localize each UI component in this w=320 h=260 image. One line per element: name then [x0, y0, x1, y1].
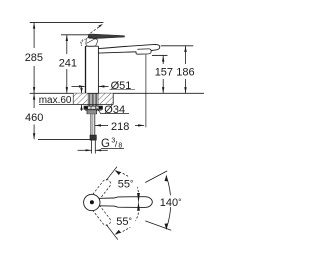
supply tube end	[91, 140, 93, 153]
svg-text:285: 285	[25, 52, 43, 64]
threaded shank	[88, 94, 98, 107]
svg-text:8: 8	[118, 143, 122, 150]
dim 186	[185, 46, 187, 64]
hose connector	[87, 110, 97, 114]
max.60 arrows	[81, 87, 83, 94]
dim 218	[95, 124, 108, 126]
text 140	[159, 195, 186, 207]
ext line aerator vertical	[145, 55, 147, 128]
dashed swung lever	[81, 39, 86, 46]
arc 55 bottom dashed	[115, 212, 138, 234]
ext line 55 top	[106, 167, 117, 181]
dashed spout +55	[93, 178, 113, 200]
ext line spout top right	[161, 45, 194, 47]
svg-text:186: 186	[176, 67, 194, 79]
arc 55 top dashed	[115, 171, 138, 193]
svg-text:Ø51: Ø51	[111, 80, 132, 92]
ext line raised-lever top	[30, 21, 104, 23]
dim 460	[33, 94, 35, 108]
svg-text:max.60: max.60	[39, 95, 72, 106]
faucet column	[85, 46, 87, 93]
ext line 140 bottom	[145, 221, 171, 230]
arrow 140 top	[165, 175, 168, 182]
text 460	[24, 109, 46, 123]
spout tick arrows	[137, 193, 140, 204]
text 55 top	[116, 177, 186, 229]
text Ø51	[110, 78, 137, 90]
ext line hose end	[38, 139, 91, 141]
ext line outlet level	[152, 54, 168, 56]
mounting nut	[84, 106, 103, 109]
pivot dot	[90, 200, 94, 204]
svg-text:157: 157	[155, 67, 173, 79]
dim 241 line	[66, 35, 68, 54]
text 218	[110, 120, 133, 133]
ext line 140 top	[145, 171, 167, 183]
dashed raised lever with arrow	[91, 26, 101, 33]
arrow 55 top	[115, 170, 121, 175]
lever dome	[86, 37, 98, 46]
countertop slab hatched	[73, 93, 87, 104]
ext line 55 bottom	[106, 225, 118, 240]
text 285	[24, 49, 45, 63]
deck top line	[30, 92, 204, 94]
text 241	[58, 55, 77, 69]
arc 140	[166, 176, 171, 229]
arrow 140 bottom	[165, 223, 168, 230]
spout	[98, 44, 159, 50]
deck bottom line with max.60 underline	[39, 104, 113, 106]
hose nipple	[90, 135, 96, 140]
svg-text:Ø34: Ø34	[104, 104, 125, 116]
text 157	[154, 65, 175, 78]
leader Ø34	[97, 108, 101, 114]
dim 285 line	[33, 23, 35, 48]
arrow 55 bottom	[115, 230, 121, 235]
swivel circle	[84, 194, 100, 210]
dim G3/8	[78, 149, 92, 151]
supply hose	[90, 114, 92, 135]
dashed spout -55	[93, 205, 113, 227]
text 55 bottom	[116, 214, 136, 227]
solid spout top-view	[100, 197, 153, 208]
dim 157	[162, 56, 164, 64]
label Ø51 underline	[110, 89, 136, 91]
text 186	[176, 65, 197, 78]
svg-text:G: G	[101, 138, 110, 150]
ext line rest-lever top	[61, 34, 97, 36]
svg-text:218: 218	[111, 121, 129, 133]
aerator	[136, 49, 151, 54]
dim Ø51	[72, 85, 85, 87]
svg-text:460: 460	[25, 112, 43, 124]
svg-text:241: 241	[59, 58, 77, 70]
lever blade	[88, 34, 124, 39]
